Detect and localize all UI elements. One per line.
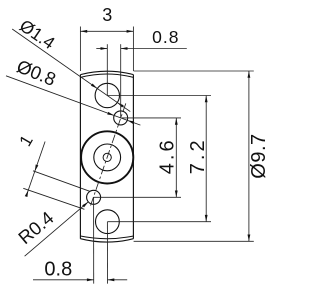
svg-text:0.8: 0.8	[152, 27, 179, 47]
svg-text:7.2: 7.2	[187, 137, 209, 174]
svg-text:0.8: 0.8	[44, 259, 72, 281]
svg-text:3: 3	[102, 5, 112, 25]
svg-text:Ø9.7: Ø9.7	[248, 133, 270, 178]
svg-text:4.6: 4.6	[156, 137, 178, 174]
